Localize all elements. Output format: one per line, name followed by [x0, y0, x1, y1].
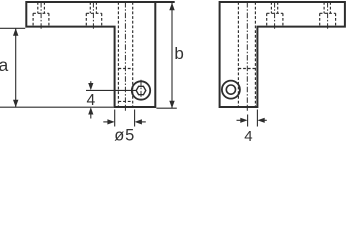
dimension a bottom arrow	[13, 100, 18, 108]
dimension a: top extension line	[0, 27, 25, 29]
dimension o5: left extension line	[114, 110, 116, 127]
dimension 4 (right view): right extension line	[256, 110, 258, 127]
right leg groove centerline	[246, 2, 248, 111]
left view outline (L-shape)	[26, 2, 155, 107]
svg-text:ø5: ø5	[114, 126, 135, 143]
top edge extension toward b	[155, 1, 174, 3]
dimension b: bottom extension line	[156, 107, 176, 109]
svg-text:a: a	[0, 55, 9, 75]
o5 left arrow	[103, 121, 108, 123]
groove A centerline	[274, 2, 276, 30]
right view hidden groove B (castle)	[320, 2, 336, 25]
dimension 4 (left view): upper arrow with tail	[90, 81, 92, 88]
right 4 right arrow	[264, 119, 267, 121]
dimension 4 (right view): left extension line	[247, 115, 249, 127]
dimension a line	[15, 28, 17, 107]
dimension a top arrow	[13, 28, 18, 36]
hex nut pocket	[136, 86, 146, 94]
left view hidden groove 1 (castle)	[33, 2, 49, 25]
groove B centerline	[327, 2, 329, 30]
counterbore circle right view (outer)	[222, 81, 240, 99]
svg-text:4: 4	[244, 128, 252, 143]
right view outline (mirrored L-shape)	[220, 2, 345, 107]
dimension b line	[171, 3, 173, 109]
left view leg hidden groove lines	[118, 2, 132, 106]
hole right view (inner)	[226, 85, 235, 94]
leg groove centerline	[124, 2, 126, 111]
dimension o5: right extension line	[134, 110, 136, 127]
dimension a: bottom extension line	[0, 106, 114, 108]
o5 right arrow	[141, 121, 146, 123]
hole vertical centerline	[140, 80, 142, 102]
dimension b top arrow	[169, 3, 174, 11]
leader line from dim 4 to hole center	[86, 89, 136, 91]
right view leg hidden groove lines	[238, 2, 255, 106]
right 4 left arrow	[237, 119, 242, 121]
groove 1 centerline	[40, 2, 42, 30]
dimension 4 lower arrow with tail	[90, 110, 92, 119]
dimension b bottom arrow	[169, 101, 174, 109]
right view hidden groove A (castle)	[267, 2, 283, 25]
counterbore circle left view	[132, 81, 150, 99]
groove 2 centerline	[92, 2, 94, 30]
left view hidden groove 2 (castle)	[86, 2, 101, 25]
svg-text:4: 4	[87, 92, 96, 109]
svg-text:b: b	[174, 44, 183, 63]
